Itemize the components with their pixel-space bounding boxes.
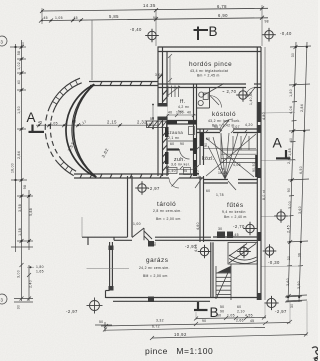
svg-text:~ 2,70: ~ 2,70 — [222, 89, 237, 94]
svg-text:95: 95 — [214, 125, 218, 129]
benchmark circle top left — [145, 29, 159, 43]
zuh shower tray — [168, 168, 191, 175]
hordos door leaf to kostolo — [245, 88, 255, 98]
svg-text:98: 98 — [23, 185, 27, 189]
svg-text:1,40: 1,40 — [168, 169, 176, 173]
svg-text:45: 45 — [38, 121, 42, 125]
svg-text:9,4 m² kerdin: 9,4 m² kerdin — [222, 210, 246, 214]
svg-text:3,60: 3,60 — [298, 206, 302, 214]
benchmark circle right column — [274, 209, 288, 223]
dots at dim intersections left column — [14, 46, 30, 242]
ff room stair — [167, 86, 180, 98]
extension verticals bottom right — [196, 301, 307, 336]
svg-text:30: 30 — [218, 227, 222, 231]
svg-text:3,00: 3,00 — [17, 270, 21, 278]
svg-text:2,45: 2,45 — [287, 156, 291, 164]
tarolo left wall W7 — [128, 176, 133, 237]
benchmark circle futes — [243, 222, 257, 236]
bay center dimension line — [36, 123, 158, 127]
svg-text:közl.: közl. — [202, 156, 215, 162]
svg-text:30: 30 — [290, 304, 294, 308]
svg-text:1,50: 1,50 — [17, 106, 21, 114]
svg-text:fűtés: fűtés — [227, 202, 244, 209]
svg-text:pince M=1:100: pince M=1:100 — [145, 346, 213, 356]
svg-text:43,2 m² lam. burk.: 43,2 m² lam. burk. — [208, 119, 241, 123]
svg-text:A: A — [273, 135, 283, 151]
svg-text:-2,97: -2,97 — [275, 309, 287, 314]
stair dim line — [167, 115, 257, 170]
svg-text:-0,40: -0,40 — [130, 27, 142, 32]
benchmark circle shaft — [237, 245, 251, 259]
svg-text:3: 3 — [1, 40, 4, 45]
benchmark circle garage — [198, 245, 212, 259]
bottom section marker B — [194, 302, 208, 311]
exterior stair shaft right — [228, 243, 257, 265]
svg-text:4,2 m²: 4,2 m² — [178, 105, 190, 109]
hatched pier left of szauna — [147, 121, 167, 128]
svg-text:1,80: 1,80 — [36, 265, 44, 269]
svg-text:45: 45 — [72, 120, 76, 124]
svg-text:1,80: 1,80 — [289, 89, 293, 97]
svg-text:Bm = 2,00 cm: Bm = 2,00 cm — [156, 217, 181, 221]
svg-text:6,78: 6,78 — [217, 4, 227, 9]
bay inner crescent wall — [66, 84, 96, 177]
svg-text:3,00: 3,00 — [155, 73, 163, 77]
top dimension line second tier — [41, 18, 268, 21]
svg-text:50: 50 — [220, 305, 224, 309]
wc door arc — [210, 96, 222, 108]
svg-text:1,07: 1,07 — [232, 125, 240, 129]
svg-text:90: 90 — [180, 142, 184, 146]
svg-text:2,8 m² cem-sim.: 2,8 m² cem-sim. — [153, 209, 182, 213]
garage bottom wall H10 — [106, 298, 262, 302]
svg-text:60: 60 — [206, 189, 210, 193]
svg-text:1,00: 1,00 — [133, 222, 141, 226]
szauna bottom wall H5 — [167, 148, 197, 150]
svg-text:2,15: 2,15 — [107, 120, 117, 125]
svg-text:6,50: 6,50 — [299, 166, 303, 174]
svg-text:1,65: 1,65 — [36, 270, 44, 274]
svg-text:1,05: 1,05 — [50, 122, 58, 126]
svg-text:3,32: 3,32 — [156, 319, 164, 323]
svg-text:1,50: 1,50 — [176, 111, 184, 115]
bottom stair flight — [216, 264, 231, 300]
svg-text:40: 40 — [187, 111, 191, 115]
svg-text:kóstoló: kóstoló — [212, 111, 236, 118]
garage top wall H9 — [82, 237, 211, 245]
scattered small dimension marks center area — [168, 92, 266, 252]
garage bottom wall pillar — [148, 297, 154, 303]
svg-text:szauna: szauna — [167, 130, 183, 135]
svg-text:BM = 2,00 cm: BM = 2,00 cm — [143, 274, 168, 278]
svg-text:tároló: tároló — [157, 201, 176, 208]
svg-text:-2,70: -2,70 — [233, 224, 245, 229]
stair block left wall W3 — [200, 129, 204, 242]
svg-text:1,40,60: 1,40,60 — [249, 92, 253, 105]
svg-text:90: 90 — [202, 319, 206, 323]
svg-text:1,38: 1,38 — [18, 228, 22, 236]
svg-text:50: 50 — [217, 314, 221, 318]
svg-text:6,90: 6,90 — [218, 13, 228, 18]
kostolo door leaf — [220, 119, 233, 131]
svg-text:18/25: 18/25 — [218, 171, 228, 175]
svg-text:90: 90 — [287, 188, 291, 192]
garage right wall W6 — [211, 242, 213, 297]
svg-text:1,02: 1,02 — [17, 62, 21, 70]
svg-text:garázs: garázs — [146, 257, 168, 264]
svg-text:16,00: 16,00 — [11, 163, 15, 173]
svg-text:-0,30: -0,30 — [268, 260, 280, 265]
svg-text:hordós pince: hordós pince — [189, 61, 232, 68]
svg-text:1,78: 1,78 — [216, 193, 224, 197]
left dimension column — [10, 40, 33, 302]
svg-text:10,92: 10,92 — [174, 332, 187, 337]
svg-text:60: 60 — [237, 305, 241, 309]
kozl door gap in W3 — [199, 165, 205, 176]
svg-text:36: 36 — [298, 253, 302, 257]
svg-text:3,00: 3,00 — [288, 201, 292, 209]
garage left wall W5 — [106, 242, 113, 298]
svg-text:90,50: 90,50 — [252, 162, 256, 172]
svg-text:40: 40 — [17, 80, 21, 84]
svg-text:6,72: 6,72 — [152, 325, 160, 329]
winder stair — [206, 133, 257, 179]
dots at dim intersections right column — [287, 46, 308, 298]
szauna top wall H4 — [167, 121, 197, 125]
door opening in bay right wall — [157, 107, 167, 117]
door gap in H7 under zuh — [169, 173, 179, 179]
ff block right wall W2 — [194, 84, 197, 176]
svg-text:60: 60 — [170, 142, 174, 146]
svg-text:90: 90 — [153, 242, 157, 246]
svg-text:A: A — [27, 110, 36, 125]
futes top wall — [204, 180, 258, 184]
svg-text:58: 58 — [17, 51, 21, 55]
benchmark circle tarolo — [135, 181, 149, 195]
futes bottom / shaft top — [204, 237, 257, 241]
szauna bench — [168, 127, 195, 142]
svg-text:4,80: 4,80 — [262, 112, 266, 120]
svg-text:90: 90 — [204, 143, 208, 147]
svg-text:2,45: 2,45 — [231, 233, 239, 237]
svg-text:14.35: 14.35 — [143, 3, 156, 8]
svg-text:98: 98 — [265, 20, 269, 24]
svg-text:Bm = 2,40 m: Bm = 2,40 m — [224, 215, 247, 219]
svg-text:5,88: 5,88 — [29, 208, 33, 216]
garage top wall pillar — [148, 241, 154, 247]
svg-text:45: 45 — [250, 319, 254, 323]
svg-text:3,58: 3,58 — [18, 204, 22, 212]
svg-text:30: 30 — [291, 53, 295, 57]
left wall upper block W1 — [158, 47, 167, 176]
svg-text:4,05: 4,05 — [233, 163, 241, 167]
chimney blocks — [217, 232, 233, 239]
svg-text:3,6 m² ker.: 3,6 m² ker. — [171, 163, 190, 167]
svg-text:Bm = 2,45 m: Bm = 2,45 m — [197, 74, 220, 78]
benchmark circle bottom right — [264, 296, 278, 310]
svg-text:2,45: 2,45 — [287, 225, 291, 233]
svg-text:4,04: 4,04 — [289, 106, 293, 114]
svg-text:4,60: 4,60 — [196, 222, 200, 230]
svg-text:4,55: 4,55 — [245, 314, 253, 318]
svg-text:B: B — [209, 24, 218, 39]
svg-text:B: B — [210, 305, 219, 320]
svg-text:30: 30 — [17, 305, 21, 309]
svg-text:3,60: 3,60 — [286, 278, 290, 286]
svg-text:-2,97: -2,97 — [148, 186, 160, 191]
szauna door arc — [180, 149, 190, 159]
svg-text:5,85: 5,85 — [109, 14, 119, 19]
svg-text:-0,40: -0,40 — [280, 31, 292, 36]
svg-text:40: 40 — [289, 138, 293, 142]
svg-text:2,66: 2,66 — [236, 319, 244, 323]
top wall H1 — [158, 47, 262, 52]
faint extension lines building to right dims — [261, 113, 302, 267]
top dimension line 14.35 — [42, 8, 268, 11]
hordos pince bottom wall H2 — [158, 84, 261, 88]
svg-text:2,84: 2,84 — [17, 151, 21, 159]
svg-text:2,40: 2,40 — [29, 280, 33, 288]
ff wc fixtures — [198, 84, 224, 106]
svg-text:1,40: 1,40 — [196, 170, 200, 178]
benchmark circle outside right — [263, 244, 277, 258]
futes door leaf — [228, 181, 236, 190]
svg-text:1,85: 1,85 — [288, 148, 292, 156]
page edge circled 3 left top — [0, 36, 7, 46]
benchmark circle bottom left — [87, 298, 103, 314]
page edge circled 3 left bottom — [0, 294, 7, 304]
svg-text:50: 50 — [99, 320, 103, 324]
right wall W4 — [257, 47, 261, 300]
benchmark circle kostolo — [236, 88, 250, 102]
small dimension ticks center — [166, 114, 247, 169]
bay bottom wall H7 — [74, 174, 204, 178]
svg-text:4,20: 4,20 — [245, 123, 253, 127]
kostolo bottom wall H6 — [197, 129, 258, 133]
bottom-right dim line end ticks — [104, 296, 308, 340]
svg-text:30: 30 — [21, 42, 25, 46]
svg-text:24,2 m² cem.sim.: 24,2 m² cem.sim. — [139, 266, 170, 270]
wc nook wall — [197, 88, 210, 109]
svg-text:2,84: 2,84 — [300, 104, 304, 112]
svg-text:95: 95 — [183, 169, 187, 173]
bottom dimension lines — [95, 318, 307, 339]
svg-text:30: 30 — [287, 256, 291, 260]
svg-text:8,0 nt: 8,0 nt — [262, 190, 266, 200]
svg-text:4,60: 4,60 — [194, 244, 198, 252]
tarolo door leaf — [132, 228, 152, 241]
svg-text:1,05: 1,05 — [227, 314, 235, 318]
bay outer arc wall band — [45, 78, 81, 175]
svg-text:2,1 m²: 2,1 m² — [168, 136, 180, 140]
svg-text:3: 3 — [1, 298, 4, 303]
right dimension column — [286, 42, 311, 302]
corner mark bottom right — [312, 347, 319, 361]
benchmark circle top right — [262, 28, 276, 42]
svg-text:-2,97: -2,97 — [66, 309, 78, 314]
tick marks on top dim lines — [39, 6, 264, 22]
svg-text:60: 60 — [206, 137, 210, 141]
svg-text:2,10: 2,10 — [237, 310, 245, 314]
bay top wall H3 — [89, 82, 158, 86]
svg-text:43,4 m² téglaburkolat: 43,4 m² téglaburkolat — [190, 69, 228, 73]
bay outer band hatch ticks — [53, 80, 78, 173]
svg-text:1,05: 1,05 — [55, 16, 63, 20]
svg-text:3,90: 3,90 — [297, 281, 301, 289]
section marker B top — [194, 27, 209, 41]
svg-text:45: 45 — [44, 16, 48, 20]
extension lines from top dims — [42, 5, 262, 80]
